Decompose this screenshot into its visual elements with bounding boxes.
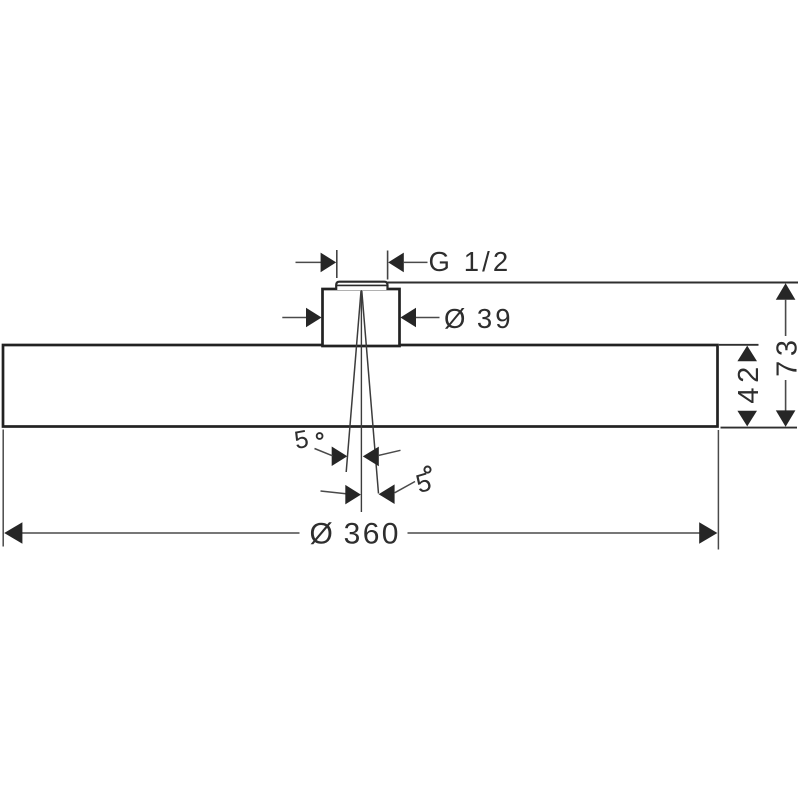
diameter 39 dimension left arrow: [306, 308, 322, 328]
73 dimension top extension line: [388, 282, 799, 284]
svg-text:42: 42: [733, 362, 765, 403]
left 5 degree label: [292, 425, 322, 455]
lower angle dimension right arrow: [379, 484, 395, 504]
G 1/2 dimension extension line left: [336, 250, 338, 278]
diameter 39 dimension left tail line: [282, 317, 306, 319]
lower angle dimension left leader: [321, 491, 347, 494]
lower angle dimension left arrow: [345, 485, 361, 505]
42 dimension top extension line: [719, 344, 759, 346]
diameter 360 extension line left: [2, 430, 4, 547]
upper angle dimension left arrow: [332, 447, 348, 467]
diameter 360 right arrow: [699, 522, 717, 543]
right 5-degree spray line: [362, 291, 379, 494]
42 dimension bottom arrow: [737, 411, 757, 427]
G1/2 thread cap: [336, 282, 387, 290]
right 5 degree label: [412, 466, 434, 499]
lower angle dimension right leader: [395, 482, 415, 493]
spray centerline: [360, 291, 362, 513]
73 dimension bottom arrow: [776, 410, 796, 426]
left 5-degree spray line: [346, 291, 361, 472]
diameter 360 dimension line left: [20, 532, 300, 534]
svg-text:73: 73: [771, 335, 800, 376]
G 1/2 dimension right tail line: [404, 261, 428, 263]
G 1/2 dimension left arrow: [321, 253, 337, 273]
svg-text:Ø 360: Ø 360: [310, 518, 401, 551]
upper angle dimension right arrow: [363, 447, 379, 467]
connector block: [323, 289, 400, 346]
73 dimension upper line: [785, 299, 787, 336]
upper angle dimension right leader: [379, 450, 401, 455]
42 dimension top arrow: [737, 346, 757, 362]
42/73 bottom extension line: [721, 427, 798, 429]
shower head disc (side view): [3, 345, 718, 427]
diameter 39 dimension right tail line: [416, 317, 440, 319]
73 dimension lower line: [785, 380, 787, 412]
73 dimension top arrow: [776, 283, 796, 300]
svg-text:G 1/2: G 1/2: [429, 246, 512, 277]
diameter 360 left arrow: [4, 522, 22, 543]
G 1/2 dimension right arrow: [388, 253, 404, 273]
upper angle dimension left leader: [315, 449, 333, 456]
diameter 360 dimension line right: [408, 532, 701, 534]
G 1/2 dimension extension line right: [387, 251, 389, 280]
G 1/2 dimension left tail line: [296, 261, 322, 263]
diameter 39 dimension right arrow: [400, 308, 416, 328]
svg-text:Ø 39: Ø 39: [444, 303, 513, 334]
diameter 360 extension line right: [717, 430, 719, 550]
